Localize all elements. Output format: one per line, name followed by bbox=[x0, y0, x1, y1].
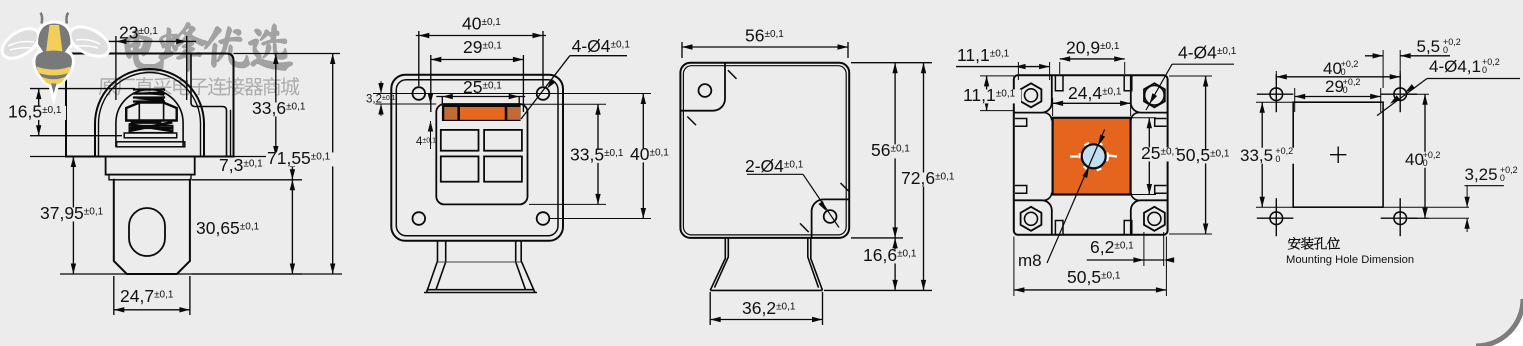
svg-text:m8: m8 bbox=[1018, 251, 1042, 270]
bee logo bbox=[0, 13, 112, 94]
dim 25 bbox=[441, 97, 443, 106]
label 4-O4,1 bbox=[1427, 78, 1520, 80]
dim 4 bbox=[430, 97, 432, 105]
view3 BR ear bbox=[812, 199, 850, 238]
dim 40 right bbox=[550, 93, 651, 95]
svg-text:0: 0 bbox=[1500, 173, 1505, 183]
view1 washer plate1 bbox=[124, 133, 177, 138]
view1 oval slot bbox=[129, 208, 165, 256]
view2 boxes bbox=[441, 130, 479, 151]
m8 leader bbox=[1047, 130, 1105, 264]
view3 outer square bbox=[680, 63, 849, 238]
dim 40 top bbox=[418, 31, 420, 86]
view2 inner panel bbox=[436, 104, 527, 204]
view2 orange bar bbox=[442, 104, 521, 121]
view4 hex nuts bbox=[1021, 83, 1042, 107]
svg-text:4-Ø4,1: 4-Ø4,1 bbox=[1429, 57, 1481, 76]
view3 inner square bbox=[683, 66, 846, 235]
svg-text:0: 0 bbox=[1423, 158, 1428, 168]
view4 small tabs bbox=[1055, 76, 1063, 91]
dim 25 right bbox=[1132, 117, 1156, 119]
view3 tick marks bbox=[687, 70, 849, 232]
dim 7,3 bbox=[192, 179, 302, 181]
view4 pads bbox=[1014, 75, 1052, 112]
view4 fillets bbox=[1044, 113, 1140, 201]
view1 dome arc2 bbox=[99, 73, 201, 157]
view3 TL ear bbox=[680, 63, 725, 111]
view2 inner square bbox=[396, 80, 558, 236]
svg-text:0: 0 bbox=[1343, 85, 1348, 95]
label 2-O4 bbox=[747, 173, 803, 175]
dim 5,5 bbox=[1382, 50, 1384, 88]
dim 50,5 right bbox=[1169, 75, 1212, 77]
dim 11,1 left bbox=[980, 75, 1014, 77]
dim 16,5 bbox=[30, 88, 135, 90]
dim 29 bbox=[430, 55, 432, 112]
dim 72,6 bbox=[824, 289, 932, 291]
view2 funnel bbox=[424, 241, 537, 293]
svg-text:33,5: 33,5 bbox=[1240, 146, 1273, 165]
dim 23 bbox=[115, 36, 117, 100]
view4 body bbox=[1014, 75, 1168, 235]
dim 30,65 bbox=[192, 273, 302, 275]
svg-text:0: 0 bbox=[1443, 45, 1448, 55]
view1 top plate bbox=[66, 54, 234, 157]
svg-text:0: 0 bbox=[1275, 154, 1280, 164]
hole centerline bbox=[373, 93, 570, 95]
dim 71,55 bbox=[60, 273, 342, 275]
dim 3,2 bbox=[380, 81, 382, 94]
corner border arc bbox=[1476, 299, 1523, 346]
dim 33,5 v5 bbox=[1256, 101, 1294, 103]
view5 rect bbox=[1293, 102, 1383, 207]
view5 center cross bbox=[1330, 154, 1346, 156]
view1 dome outer arc bbox=[95, 69, 204, 156]
watermark sub text bbox=[99, 77, 300, 96]
view2 outer square bbox=[391, 75, 563, 241]
view4 white streaks bbox=[1080, 142, 1108, 170]
view4 orange square bbox=[1053, 118, 1131, 195]
view1 spring washer bbox=[130, 123, 172, 131]
dim 40 right v5 bbox=[1408, 93, 1429, 95]
svg-text:0: 0 bbox=[1482, 65, 1487, 75]
panel top ext bbox=[375, 103, 436, 105]
view1 nut bbox=[126, 103, 177, 121]
dim 16,6 bbox=[894, 238, 896, 291]
dim 24,4 bbox=[1052, 98, 1054, 116]
view2 corner holes bbox=[413, 87, 426, 100]
view1 tab bbox=[114, 180, 190, 274]
dim 6,2 bbox=[1143, 232, 1145, 266]
view1 base strip bbox=[109, 175, 191, 180]
dim 50,5 bottom bbox=[1013, 237, 1015, 297]
svg-text:5,5: 5,5 bbox=[1417, 37, 1441, 56]
dim 56 right bbox=[851, 62, 932, 64]
view1 right step bbox=[191, 54, 227, 157]
dim 3,25 bbox=[1384, 206, 1469, 208]
dim 56 top bbox=[681, 42, 683, 58]
svg-text:29: 29 bbox=[1325, 77, 1344, 96]
dim 29 v5 bbox=[1294, 88, 1296, 112]
dim 37,95 bbox=[30, 156, 95, 158]
view1 base box bbox=[106, 157, 195, 175]
dim 20,9 bbox=[1059, 62, 1061, 74]
svg-text:40: 40 bbox=[1405, 150, 1424, 169]
view3 funnel bbox=[710, 238, 822, 291]
svg-text:0: 0 bbox=[1341, 67, 1346, 77]
label 4-O4 v4 bbox=[1172, 63, 1234, 65]
view4 m8 hole bbox=[1082, 144, 1106, 168]
mounting hole text cn bbox=[1288, 237, 1340, 249]
svg-text:3,25: 3,25 bbox=[1465, 165, 1498, 184]
view1 inner arch bbox=[116, 89, 183, 146]
view1 stud threads bbox=[135, 88, 166, 103]
dim 33,6 bbox=[234, 53, 341, 55]
dim 33,5 right bbox=[522, 103, 606, 105]
dim 11,1 top bbox=[1017, 62, 1019, 80]
view1 base line bbox=[66, 156, 234, 158]
view1 washer bbox=[129, 126, 173, 133]
view5 holes bbox=[1270, 88, 1283, 101]
view1 washer plate2 bbox=[117, 142, 185, 147]
watermark big text bbox=[124, 23, 292, 72]
dim 24,7 bbox=[113, 276, 115, 315]
svg-text:40: 40 bbox=[1323, 59, 1342, 78]
dim 36,2 bbox=[709, 292, 711, 325]
dim 40 top v5 bbox=[1275, 71, 1277, 80]
svg-text:Mounting Hole Dimension: Mounting Hole Dimension bbox=[1286, 254, 1414, 266]
label 4-O4 bbox=[570, 55, 627, 57]
